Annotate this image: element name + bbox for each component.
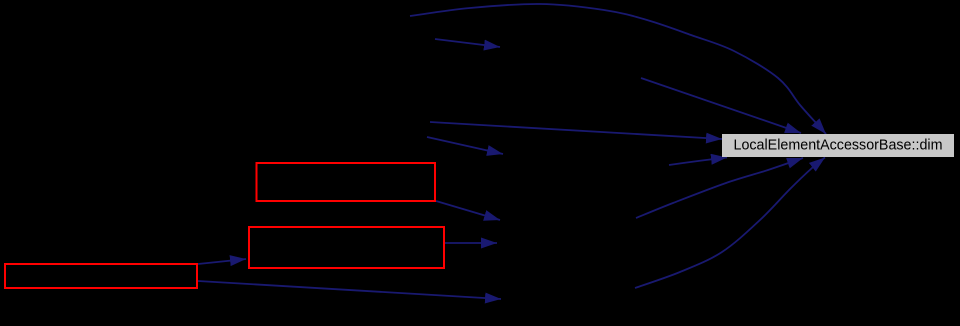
svg-text:LocalElementAccessorBase::dim: LocalElementAccessorBase::dim xyxy=(734,137,943,153)
